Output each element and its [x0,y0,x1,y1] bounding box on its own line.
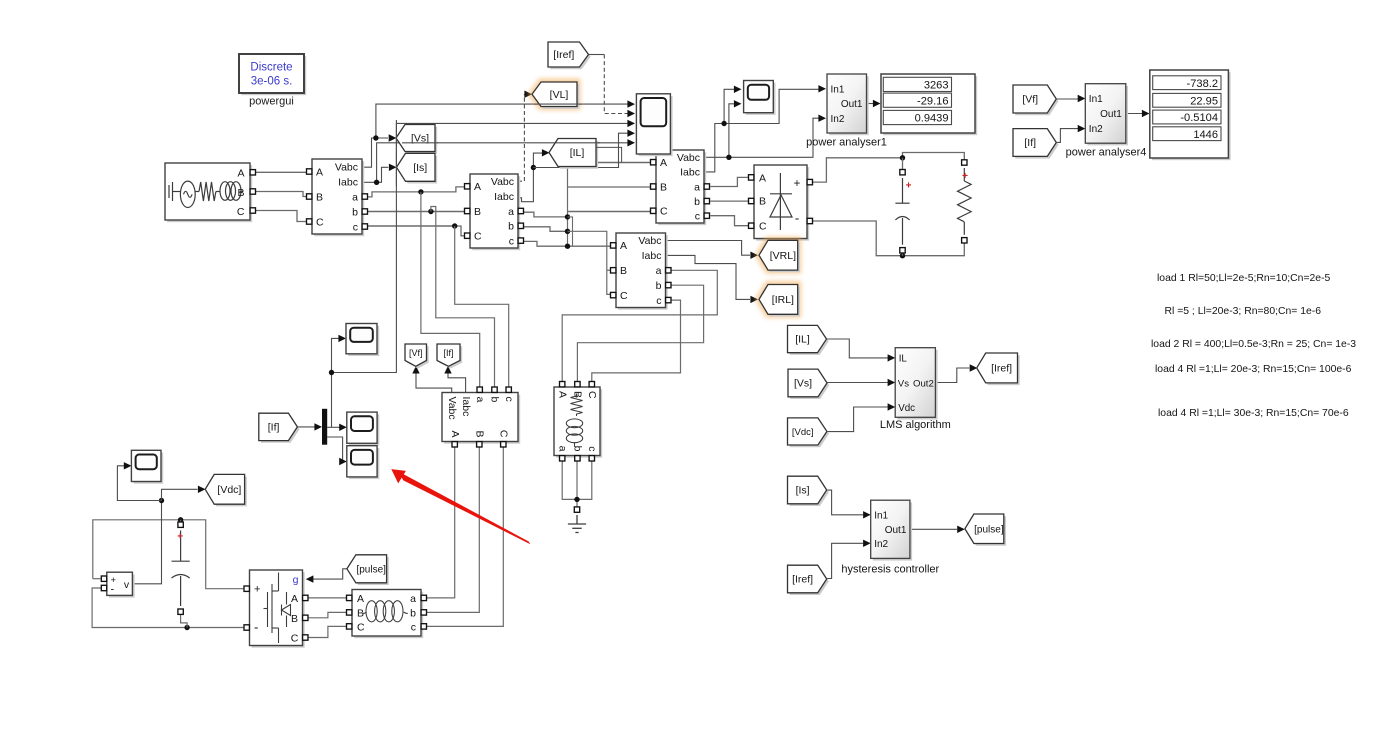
wire phase a tap down to VI5 a [421,192,480,389]
wire VI1 a to VI2 A with tap down [362,187,465,197]
display4 [1152,72,1231,160]
wire VI4 a to RL load A [562,270,717,382]
svg-text:C: C [357,621,365,633]
wire VI1 c to VI2 C with tap down [362,225,455,227]
svg-text:B: B [620,265,627,277]
bus vertical node [567,163,569,247]
svg-text:c: c [586,446,598,451]
wire power analyser4 Out1 to display4 [1126,113,1143,115]
svg-text:3263: 3263 [924,80,949,92]
junction DC plus [900,155,905,160]
red annotation arrow [400,473,529,543]
svg-text:c: c [656,295,661,307]
svg-text:B: B [660,181,667,193]
svg-text:Vabc: Vabc [638,235,661,247]
svg-text:c: c [503,397,515,402]
svg-text:B: B [291,613,298,625]
wire filter inductor a to VI5 A [424,447,455,598]
wire VI4 Vabc to Goto [VRL] [666,241,751,256]
junction DC minus [900,253,905,258]
demux bar [322,409,327,445]
wire VI2 a to bus [518,212,568,217]
svg-text:a: a [410,593,416,605]
junction phase a tap [418,189,423,194]
svg-text:b: b [508,221,514,233]
svg-text:[If]: [If] [1024,137,1036,149]
svg-text:IL: IL [899,353,908,364]
svg-text:[Vs]: [Vs] [794,378,812,390]
wire From [If] to power analyser4 In2 [1052,129,1078,143]
svg-text:a: a [556,446,568,452]
svg-text:[If]: [If] [443,348,453,358]
wire VI5 Vabc to Goto [Vf] [416,368,452,393]
LMS algorithm subsystem [897,350,937,420]
wire From [IL] to LMS IL [826,339,887,358]
svg-text:A: A [316,166,323,178]
svg-text:B: B [474,430,486,437]
wire bridge A to inductor A [306,597,347,599]
svg-text:+: + [962,171,968,182]
wire rectifier plus to DC load rail [813,158,903,182]
wire hysteresis Out1 to Goto [pulse] [910,528,957,530]
svg-text:Out2: Out2 [913,378,934,389]
wire source A to measurement VI1 A [253,171,306,173]
svg-text:Vabc: Vabc [491,176,514,188]
power analyser1 subsystem [829,76,869,135]
svg-text:+: + [177,532,183,543]
wire VI1 Vabc to Goto [Vs] and scope input 1 [362,138,388,167]
svg-text:power analyser1: power analyser1 [806,137,887,149]
svg-text:[pulse]: [pulse] [974,524,1004,535]
svg-text:-29.16: -29.16 [917,95,948,107]
svg-text:a: a [656,265,662,277]
From tag [Iref] hysteresis [790,567,829,595]
hysteresis controller subsystem [873,502,912,560]
svg-text:C: C [498,430,510,438]
svg-text:C: C [291,632,299,644]
Goto tag [VL] [532,82,577,107]
Goto tag [pulse] hysteresis out [967,516,1006,546]
wire bus to VI3 C [568,211,651,213]
wire VI2 Iabc to Goto [IL] [518,153,542,202]
svg-text:Rl =5 ; Ll=20e-3; Rn=80;Cn= 1e: Rl =5 ; Ll=20e-3; Rn=80;Cn= 1e-6 [1165,306,1322,317]
svg-text:+: + [794,178,801,190]
Goto tag [If] down [439,346,462,368]
arrow scope3 input [338,335,346,342]
svg-text:LMS algorithm: LMS algorithm [880,419,951,431]
wire VI2 b to bus [518,227,568,232]
arrow into [Vs] [389,134,397,141]
svg-text:A: A [759,172,766,184]
svg-text:Iabc: Iabc [460,397,472,417]
svg-text:[Is]: [Is] [796,485,810,497]
wire VI4 Iabc to Goto [IRL] [666,255,751,299]
DC load capacitor branch [900,170,905,175]
svg-text:-0.5104: -0.5104 [1180,112,1218,124]
svg-text:+: + [906,181,912,192]
svg-text:b: b [572,446,584,452]
wire filter inductor c to VI5 C [424,447,503,626]
svg-text:C: C [474,231,482,243]
svg-text:1446: 1446 [1193,129,1218,141]
svg-text:In2: In2 [1089,124,1103,135]
wire From [Iref] to hysteresis In2 [827,543,863,578]
svg-text:a: a [694,181,700,193]
DC load resistor branch [962,160,967,165]
wire From [pulse] to bridge gate [309,569,347,579]
svg-text:[Iref]: [Iref] [792,574,813,586]
arrow scope1 input1 [627,100,635,107]
svg-text:-: - [795,211,799,226]
wire From [Vdc] to LMS Vdc [827,407,888,432]
wire power analyser1 Out1 to display1 [867,103,874,105]
display1 [883,76,977,135]
wire VI4 c to RL load C [592,300,681,382]
wire rectifier minus to DC load rail [813,221,965,256]
arrow into [Is] [389,164,397,171]
wire From [Is] to hysteresis In1 [827,490,863,515]
svg-text:Out1: Out1 [841,99,863,110]
Goto tag [Iref] LMS out [979,355,1020,385]
svg-text:c: c [411,621,416,633]
scope2 [746,83,776,115]
svg-text:[Vf]: [Vf] [409,348,423,358]
svg-text:Iabc: Iabc [642,250,662,262]
junction Is [374,180,379,185]
Goto tag [IRL] [759,285,798,315]
wire filter inductor b to VI5 B [424,447,479,612]
dashed wire VI2 Vabc up to Goto [VL] [518,94,524,181]
svg-text:v: v [124,579,130,591]
three-phase VI measurement 1 [314,161,364,236]
arrow scope1 input3 [627,120,635,127]
junction mux tap [329,370,334,375]
svg-text:[VRL]: [VRL] [770,250,796,262]
scope4 [349,414,379,445]
junction vdc sense [159,498,164,503]
svg-text:Vs: Vs [898,378,909,389]
svg-text:A: A [357,593,364,605]
junction star point [574,497,579,502]
junction Vabc load [726,155,731,160]
From tag [If] analyser [1015,131,1058,159]
svg-text:0.9439: 0.9439 [915,113,949,125]
wire VI3 c to rectifier C [710,216,748,226]
three-phase VI measurement 2 [472,176,520,250]
svg-text:[Vf]: [Vf] [1022,94,1038,106]
scope5 [349,448,379,479]
svg-text:In1: In1 [874,510,888,521]
wire overlay scope input5 over IL tag [556,142,600,144]
svg-text:C: C [660,206,668,218]
wire source C to VI1 C [253,211,306,222]
wire VI5 Iabc to Goto [If] [448,368,466,393]
wire overlay scope input5 over Vs tag [402,142,438,144]
rotated VI measurement 5 [444,395,520,444]
svg-text:powergui: powergui [249,96,294,108]
svg-text:A: A [660,157,667,169]
svg-text:a: a [508,206,514,218]
dashed wire From [Iref] to scope1 input2 [589,54,605,56]
junction phase b tap [428,209,433,214]
wire voltmeter to [Vdc] and scope6 [132,501,161,584]
svg-text:-: - [111,584,115,596]
wire to voltmeter plus [93,578,101,580]
diode rectifier bridge [756,167,809,241]
wire overlay scope input1 over VL tag [534,103,582,105]
wire bus parallel segment [568,217,573,246]
wire VI2 c to bus and VI4 A [518,241,611,246]
svg-text:[Vdc]: [Vdc] [792,427,814,438]
junction bus b [565,229,570,234]
svg-text:-738.2: -738.2 [1187,78,1218,90]
wire From [Vs] to LMS Vs [827,382,888,384]
powergui block [241,56,306,95]
svg-text:[Iref]: [Iref] [553,49,574,61]
Goto tag [Vf] down [407,346,429,368]
wire bridge C to inductor C [306,626,347,637]
wire RL load star point to ground [562,461,592,500]
svg-text:[Vdc]: [Vdc] [217,484,241,496]
svg-text:[IRL]: [IRL] [772,294,794,306]
svg-text:load 2 Rl = 400;Ll=0.5e-3;Rn =: load 2 Rl = 400;Ll=0.5e-3;Rn = 25; Cn= 1… [1151,339,1356,350]
svg-text:b: b [410,607,416,619]
svg-text:load 4 Rl =1;Ll= 30e-3; Rn=15;: load 4 Rl =1;Ll= 30e-3; Rn=15;Cn= 70e-6 [1158,408,1349,419]
junction cap bottom [184,625,189,630]
three-phase VI measurement 4 [618,235,668,310]
svg-text:A: A [474,181,481,193]
From tag [Is] hysteresis [790,478,829,506]
svg-text:A: A [237,168,244,180]
junction bus a [565,214,570,219]
wire VI3 b to rectifier B [710,200,748,202]
svg-text:B: B [316,191,323,203]
svg-text:In1: In1 [1089,94,1103,105]
From tag [Iref] top [550,44,591,69]
svg-text:Iabc: Iabc [338,176,358,188]
wire bus junction to scope1 input4 [568,133,628,167]
arrow into [VL] [524,91,532,98]
wire source B to VI1 B [253,192,306,197]
wire LMS Out2 to Goto [Iref] [935,368,969,383]
Goto tag [IL] [551,141,598,169]
wire phase b tap down to VI5 b [431,207,495,390]
svg-text:A: A [620,240,627,252]
svg-text:c: c [353,221,358,233]
junction Iabc load [721,121,726,126]
svg-text:C: C [759,221,767,233]
svg-text:[VL]: [VL] [550,89,569,101]
wire VI1 Iabc to Goto [Is] and scope input 5 [362,167,388,182]
svg-text:Vabc: Vabc [677,152,700,164]
svg-text:Out1: Out1 [1100,109,1122,120]
wire VI3 a to rectifier A [710,177,748,186]
svg-text:A: A [291,593,298,605]
wire VI4 b to RL load B [577,285,703,382]
Goto tag [Vs] [398,127,437,154]
junction cap top [178,517,183,522]
voltage measurement block [109,574,135,597]
svg-text:b: b [656,280,662,292]
svg-text:power analyser4: power analyser4 [1066,147,1147,159]
svg-text:B: B [237,187,244,199]
svg-text:b: b [489,397,501,403]
wire stub right of IL tag [596,147,622,162]
svg-text:[Iref]: [Iref] [991,363,1012,375]
svg-text:[If]: [If] [268,422,280,434]
DC bus bottom rail [92,588,247,628]
svg-text:c: c [509,235,514,247]
wire bus b to VI4 B and C [568,231,611,294]
svg-text:a: a [474,397,486,403]
wire demux out1 to scope4 [327,426,339,428]
svg-text:c: c [695,211,700,223]
From tag [Vs] LMS [790,371,829,399]
svg-text:Iabc: Iabc [494,191,514,203]
svg-text:Discrete: Discrete [250,62,292,74]
svg-text:In2: In2 [831,114,845,125]
svg-text:B: B [474,206,481,218]
From tag [If] mux [261,415,300,442]
wire VI1 b to VI2 B with tap down [362,211,465,213]
DC bus capacitor branch [178,522,183,527]
power analyser4 subsystem [1088,86,1129,145]
From tag [Vf] analyser [1015,87,1058,115]
Goto tag [VRL] [759,240,798,270]
rotated three-phase series RL load block [556,389,602,458]
svg-text:C: C [620,290,628,302]
svg-text:[IL]: [IL] [795,334,810,346]
svg-text:C: C [316,216,324,228]
junction Vs [373,135,378,140]
From tag [Vdc] LMS [790,420,829,447]
arrow scope1 input5 [627,139,635,146]
three-phase VI measurement 3 [658,152,706,225]
svg-text:Vabc: Vabc [335,161,358,173]
svg-text:-: - [254,620,258,635]
svg-text:A: A [556,391,568,398]
From tag [IL] LMS [790,328,829,355]
svg-text:Iabc: Iabc [680,167,700,179]
svg-text:load 1 Rl=50;Ll=2e-5;Rn=10;Cn=: load 1 Rl=50;Ll=2e-5;Rn=10;Cn=2e-5 [1157,273,1331,284]
junction bus c [565,244,570,249]
svg-text:22.95: 22.95 [1190,95,1218,107]
svg-text:In2: In2 [874,539,888,550]
wire bus to VI3 B [568,186,651,188]
wire IL junction to bus vertical [533,167,567,169]
IGBT universal bridge inverter [252,572,305,648]
wire From [Vf] to power analyser4 In1 [1052,98,1078,100]
wire overlay mux vertical over tag points [395,120,397,186]
wire phase c tap down to VI5 c [455,226,509,389]
Goto tag [Is] [399,156,438,184]
scope1 [639,96,673,156]
svg-text:Out1: Out1 [885,525,907,536]
wire VI3 Vabc to power analyser In2 and scope2 in2 [704,118,819,157]
wire VI3 Iabc to power analyser In1 and scope2 in1 [704,89,819,172]
svg-text:In1: In1 [831,84,845,95]
svg-text:C: C [237,206,245,218]
Goto tag [Vdc] [207,477,246,507]
wire demux out2 to scope5 [327,437,343,462]
svg-text:[pulse]: [pulse] [356,564,386,575]
ground block [574,507,579,512]
three-phase series RL branch inductor [354,592,423,639]
svg-text:C: C [586,391,598,399]
svg-text:3e-06 s.: 3e-06 s. [251,76,293,88]
three-phase source block [167,165,252,222]
junction IL line [531,165,536,170]
svg-text:hysteresis controller: hysteresis controller [841,564,939,576]
wire bridge B to inductor B [306,612,347,617]
svg-text:Vdc: Vdc [898,403,915,414]
svg-text:g: g [293,574,299,586]
svg-text:[IL]: [IL] [570,147,585,159]
svg-text:a: a [352,191,358,203]
svg-text:b: b [694,196,700,208]
wire mux tap to scope1 input3 [332,338,341,427]
svg-text:[Is]: [Is] [413,162,427,174]
svg-text:+: + [254,584,260,596]
scope6 [134,453,164,484]
svg-text:Vabc: Vabc [446,397,458,420]
DC bus top rail [93,520,247,589]
svg-text:load 4 Rl =1;Ll= 20e-3; Rn=15;: load 4 Rl =1;Ll= 20e-3; Rn=15;Cn= 100e-6 [1155,364,1352,375]
svg-text:b: b [352,206,358,218]
svg-text:A: A [449,430,461,437]
wire From [If] to demux [298,426,315,428]
arrow into [IL] [542,149,550,156]
scope3 [348,326,379,356]
svg-text:B: B [759,196,766,208]
From tag [pulse] mirrored [349,557,389,585]
junction phase c tap [452,223,457,228]
wire bus to VI3 A [568,162,651,164]
